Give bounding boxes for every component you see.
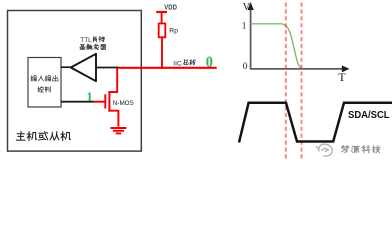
svg-text:1: 1 — [242, 21, 247, 31]
falling voltage curve (green) — [251, 24, 303, 69]
dashed marker line 1 (red) — [285, 3, 287, 161]
wire: buffer input to bus junction — [96, 67, 119, 69]
wire: IIC bus (red), horizontal — [118, 67, 217, 69]
device outline box 主机或从机 — [8, 11, 142, 152]
wire: control block to buffer output — [61, 66, 71, 68]
svg-text:T: T — [338, 70, 346, 84]
input/output control block 输入输出控制 — [28, 58, 61, 108]
dashed marker line 2 (red) — [301, 3, 303, 161]
svg-text:V: V — [243, 2, 251, 13]
svg-text:N-MOS: N-MOS — [113, 100, 134, 107]
SDA/SCL waveform — [239, 103, 392, 143]
label TTL肖特基触发器 — [80, 36, 106, 49]
T axis — [250, 65, 350, 83]
svg-text:VDD: VDD — [164, 2, 177, 11]
buffer U1 (TTL Schottky trigger), points left — [71, 54, 96, 81]
wire: gate segment (red) — [94, 101, 105, 103]
resistor Rp — [159, 24, 179, 38]
svg-text:1: 1 — [86, 89, 93, 104]
power rail VDD — [156, 2, 177, 23]
watermark logo swirl — [316, 144, 332, 156]
label 主机或从机 — [16, 131, 70, 140]
wire: control block to N-MOS gate (black segment) — [61, 101, 94, 103]
label IIC总线 — [173, 59, 195, 67]
V axis — [243, 2, 254, 70]
svg-text:SDA/SCL: SDA/SCL — [348, 110, 390, 121]
svg-text:0: 0 — [243, 62, 248, 72]
ground symbol — [110, 128, 126, 133]
svg-text:Rp: Rp — [169, 27, 178, 34]
wire: Rp to IIC bus — [161, 37, 163, 68]
svg-text:0: 0 — [206, 54, 213, 71]
transistor Q1 N-MOS — [105, 68, 134, 127]
svg-text:IIC: IIC — [173, 60, 182, 67]
svg-text:TTL: TTL — [80, 37, 92, 44]
watermark text 梦源科技 — [341, 146, 380, 154]
